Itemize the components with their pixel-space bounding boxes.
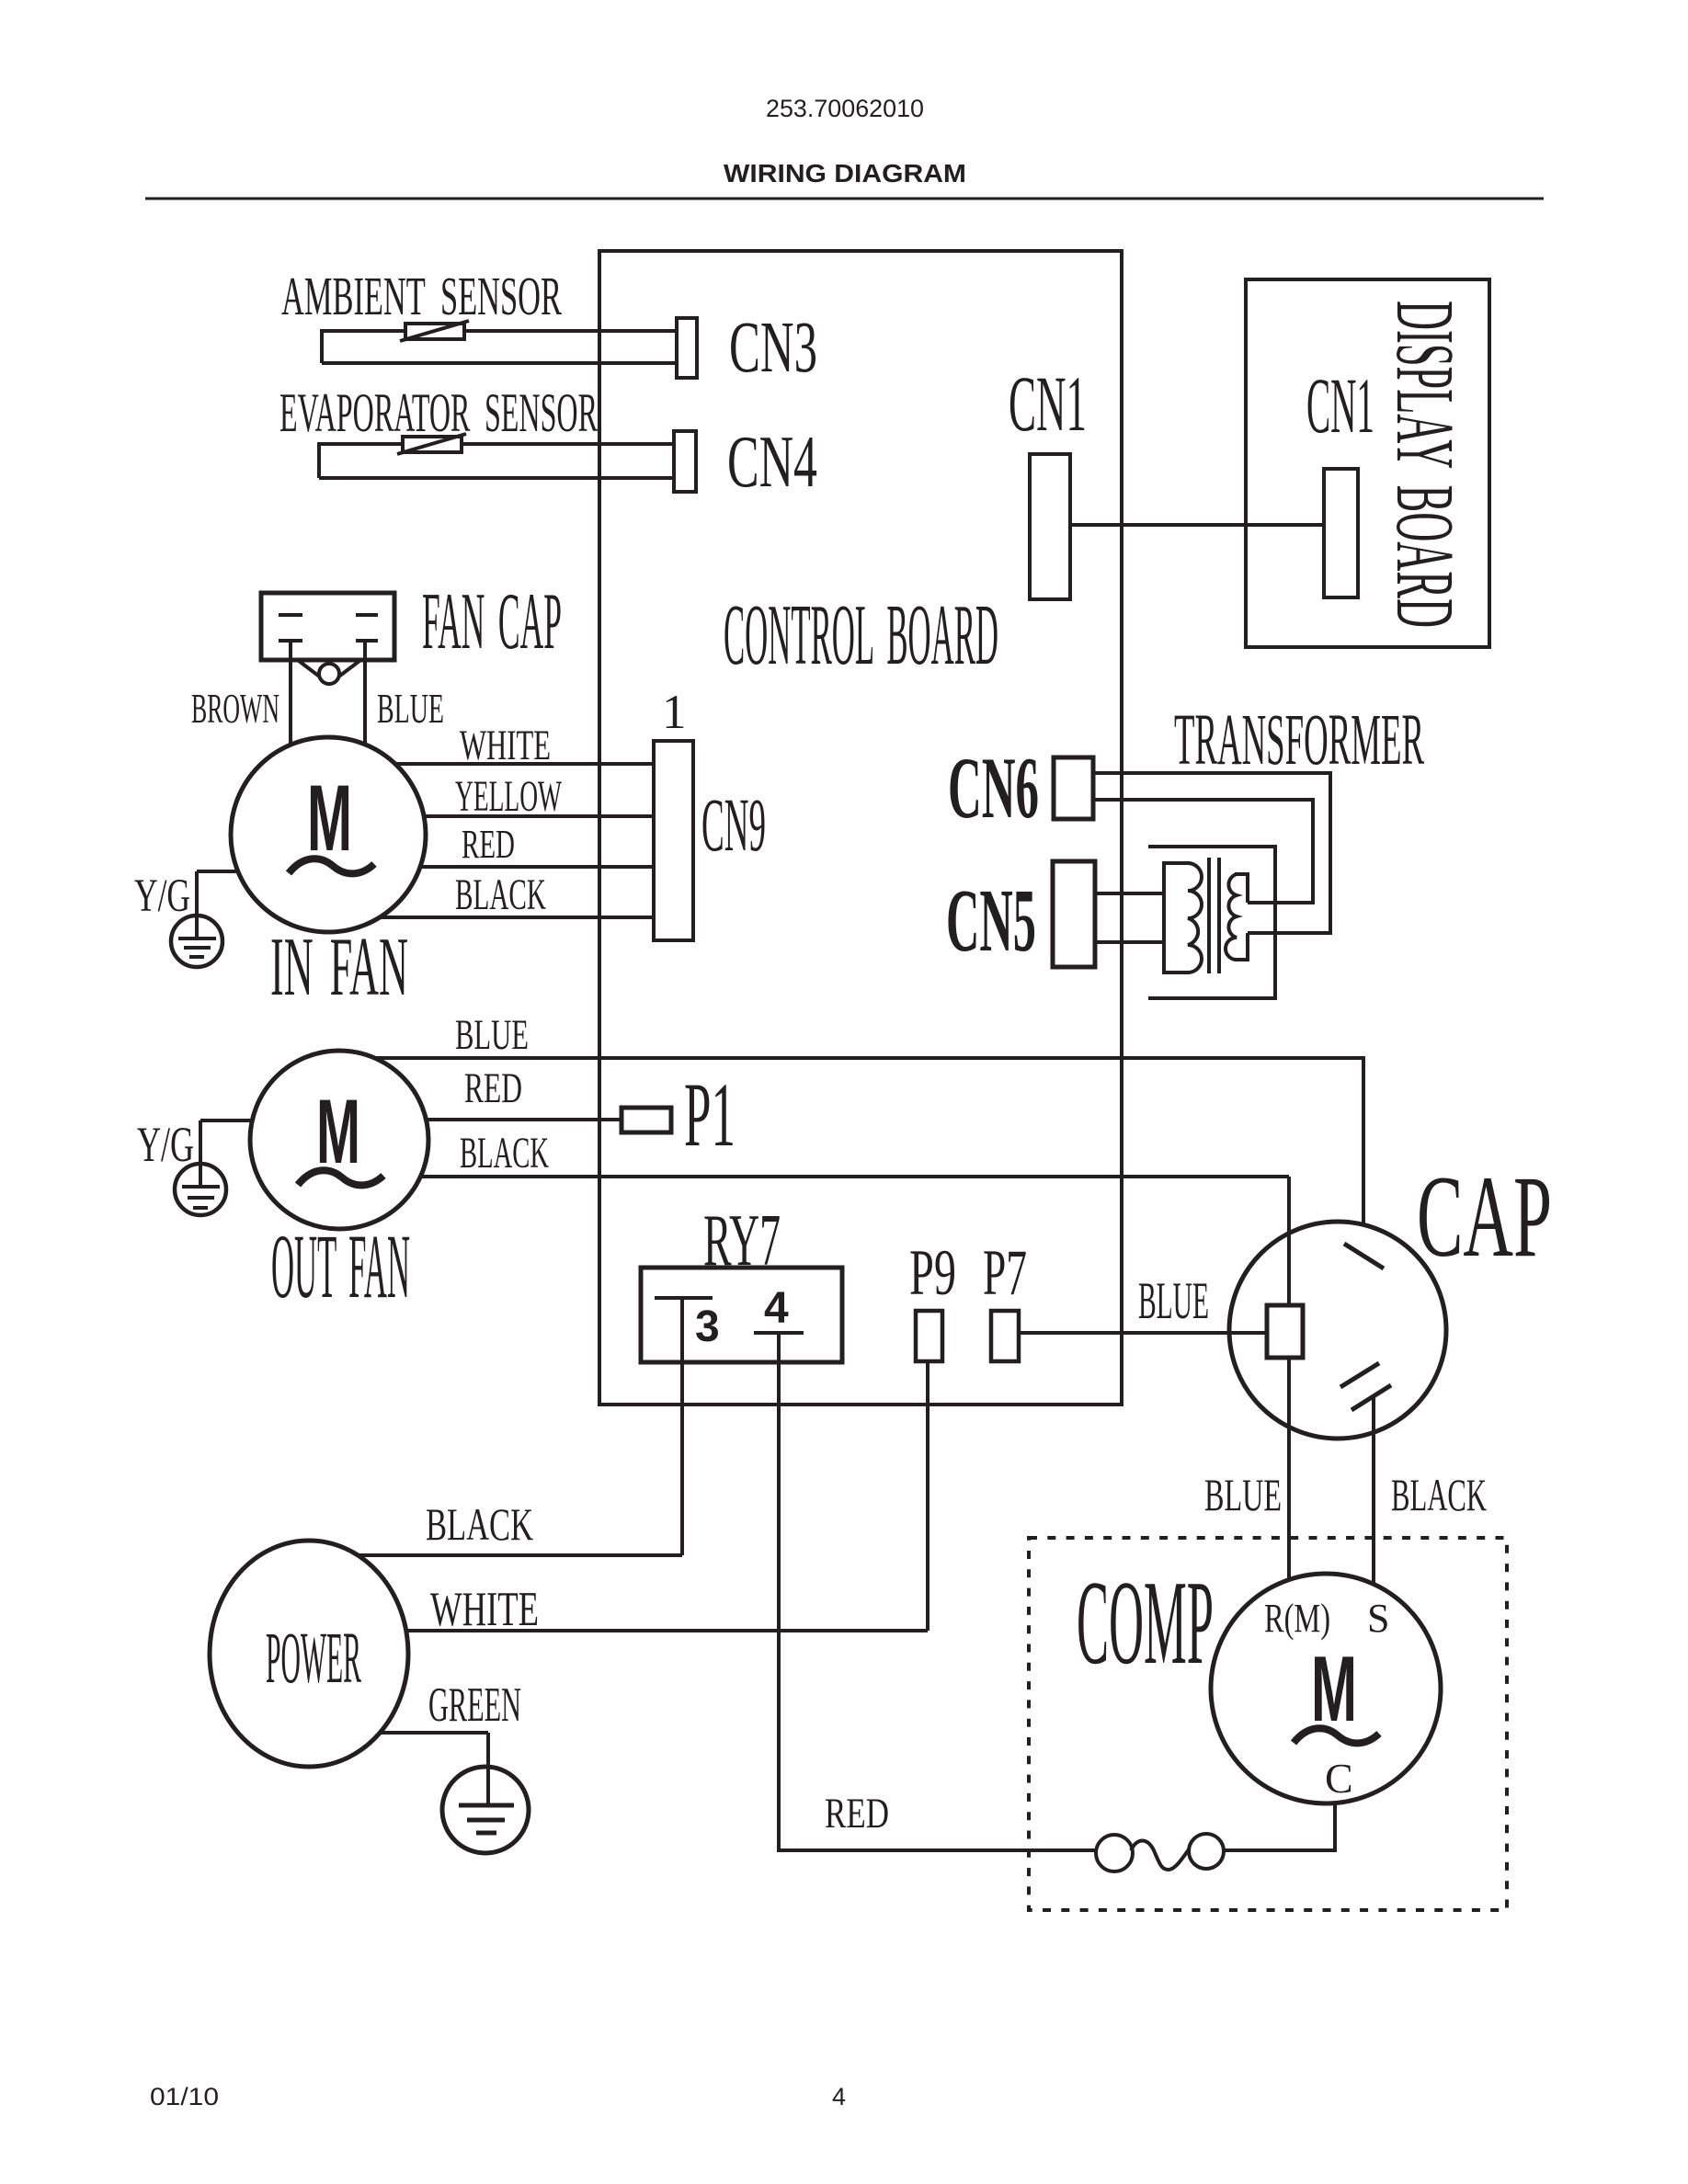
capacitor FAN CAP box [261, 593, 394, 660]
ground bars (in fan) [178, 937, 216, 940]
capacitor CAP body [1229, 1222, 1446, 1439]
wire evaporator sensor loop [319, 444, 674, 478]
svg-text:P1: P1 [684, 1064, 736, 1166]
motor OUT FAN tilde [298, 1170, 383, 1185]
svg-text:253.70062010: 253.70062010 [766, 95, 924, 122]
svg-text:1: 1 [662, 686, 687, 739]
wire CN6 pin1 to transformer [1093, 773, 1330, 933]
capacitor plates (fan cap) [279, 613, 302, 617]
wire P9 to white [926, 1361, 930, 1631]
junction bead [319, 664, 339, 684]
wire blue (fan cap to motor) [363, 642, 367, 745]
wire red (in fan to CN9) [420, 865, 654, 869]
transformer core [1207, 858, 1211, 973]
capacitor plate (top) [1344, 1244, 1384, 1268]
svg-text:IN FAN: IN FAN [270, 920, 408, 1013]
svg-text:CN9: CN9 [701, 782, 766, 867]
thermistor (ambient sensor) [405, 324, 464, 339]
capacitor plates (bottom) [1340, 1363, 1379, 1387]
svg-text:BLUE: BLUE [455, 1011, 529, 1059]
ground bars (power) [459, 1803, 514, 1808]
svg-text:3: 3 [695, 1302, 720, 1351]
svg-text:GREEN: GREEN [428, 1678, 521, 1732]
ground (power) [442, 1767, 529, 1853]
svg-text:DISPLAY BOARD: DISPLAY BOARD [1379, 301, 1470, 628]
svg-text:CN3: CN3 [729, 308, 817, 388]
svg-text:CN1: CN1 [1009, 359, 1087, 448]
power plug [210, 1541, 408, 1767]
svg-text:BLACK: BLACK [455, 870, 546, 919]
svg-text:WHITE: WHITE [430, 1583, 539, 1636]
wire pin 3 to power black [680, 1298, 684, 1555]
svg-text:BLUE: BLUE [1138, 1272, 1209, 1330]
wire white (power to P9) [406, 1629, 928, 1632]
motor OUT FAN [250, 1051, 428, 1229]
svg-text:CAP: CAP [1417, 1153, 1552, 1281]
capacitor CAP plug [1267, 1305, 1303, 1358]
svg-text:BLACK: BLACK [1391, 1469, 1487, 1520]
svg-text:Y/G: Y/G [134, 870, 190, 922]
svg-text:CN6: CN6 [948, 739, 1039, 836]
wire black (in fan to CN9) [380, 916, 654, 919]
svg-text:R(M): R(M) [1264, 1596, 1330, 1641]
transformer secondary winding [1226, 874, 1237, 960]
connector CN3 [677, 318, 697, 378]
connector CN4 [674, 431, 696, 492]
motor COMP [1211, 1574, 1441, 1803]
wire CN1 to display CN1 [1070, 523, 1324, 527]
motor IN FAN [231, 737, 426, 932]
transformer outer bracket [1148, 847, 1275, 998]
wire P7 to cap plug [1017, 1331, 1267, 1335]
ground wire (in fan) [195, 871, 199, 938]
ground (out fan) [175, 1164, 226, 1215]
svg-text:P9: P9 [909, 1237, 956, 1309]
wire green (power to ground) [380, 1731, 488, 1735]
fan cap vee link [299, 661, 359, 684]
connector P7 [991, 1311, 1019, 1361]
svg-text:4: 4 [832, 2083, 846, 2110]
ground (in fan) [171, 916, 222, 967]
pin 3 bar [655, 1296, 713, 1300]
svg-text:CONTROL BOARD: CONTROL BOARD [724, 587, 998, 683]
display board [1246, 279, 1489, 647]
svg-text:CN5: CN5 [946, 871, 1036, 971]
svg-text:CN1: CN1 [1306, 361, 1374, 449]
svg-text:WIRING DIAGRAM: WIRING DIAGRAM [724, 159, 966, 188]
svg-text:RED: RED [462, 822, 515, 867]
wire blue (out fan to cap) [370, 1058, 1363, 1257]
svg-text:BLUE: BLUE [1204, 1469, 1282, 1520]
wire white (in fan to CN9) [395, 762, 654, 766]
svg-text:BLUE: BLUE [377, 686, 444, 732]
ground wire (power) [486, 1733, 490, 1805]
ground wire (out fan) [199, 1120, 202, 1187]
wire CN5 pin2 to transformer [1095, 940, 1164, 944]
svg-text:COMP: COMP [1077, 1556, 1214, 1689]
wire black (cap to comp S) [1372, 1397, 1375, 1584]
connector CN1 (control board) [1030, 454, 1070, 599]
svg-text:P7: P7 [983, 1237, 1027, 1309]
title rule [145, 198, 1544, 200]
connector P9 [916, 1311, 942, 1361]
svg-text:M: M [307, 766, 352, 870]
svg-text:AMBIENT SENSOR: AMBIENT SENSOR [281, 266, 562, 326]
motor IN FAN tilde [289, 859, 374, 873]
svg-text:OUT FAN: OUT FAN [271, 1215, 410, 1317]
connector CN5 [1053, 861, 1095, 967]
svg-text:C: C [1325, 1755, 1353, 1802]
connector CN9 [654, 741, 693, 940]
connector CN1 (display board) [1324, 469, 1358, 597]
wire yellow (in fan to CN9) [424, 814, 654, 818]
wire CN6 pin2 to transformer [1093, 800, 1313, 903]
transformer primary winding [1188, 863, 1202, 973]
svg-text:POWER: POWER [266, 1619, 361, 1699]
compressor enclosure (dashed) [1029, 1538, 1507, 1910]
wire Y/G (out fan) [200, 1119, 252, 1122]
wire blue (cap plug to comp R) [1287, 1358, 1291, 1580]
svg-text:BLACK: BLACK [460, 1129, 549, 1177]
svg-text:EVAPORATOR SENSOR: EVAPORATOR SENSOR [279, 382, 598, 443]
pin 4 bar [754, 1331, 804, 1335]
wire Y/G (in fan) [197, 870, 238, 873]
svg-text:BROWN: BROWN [191, 686, 279, 732]
svg-text:RED: RED [825, 1790, 889, 1837]
svg-text:WHITE: WHITE [460, 722, 551, 769]
connector CN6 [1054, 757, 1093, 819]
svg-text:RED: RED [464, 1064, 522, 1112]
ground bars (out fan) [182, 1185, 220, 1189]
svg-text:01/10: 01/10 [150, 2083, 219, 2110]
wire black to cap plug [1287, 1177, 1291, 1305]
svg-text:S: S [1367, 1596, 1389, 1641]
connector P1 [622, 1108, 671, 1132]
transformer secondary arms [1235, 874, 1248, 960]
svg-text:FAN CAP: FAN CAP [422, 577, 562, 666]
wire pin 4 to red [779, 1333, 1098, 1850]
wire black (out fan to cap) [420, 1175, 1289, 1178]
svg-text:BLACK: BLACK [426, 1498, 533, 1550]
wire brown (fan cap to motor) [289, 642, 292, 745]
wire black (power to pin 3) [358, 1553, 682, 1557]
wire ambient sensor loop [322, 331, 677, 363]
overload protector [1096, 1835, 1133, 1871]
svg-text:TRANSFORMER: TRANSFORMER [1174, 700, 1424, 780]
svg-text:YELLOW: YELLOW [455, 772, 562, 821]
motor COMP tilde [1294, 1728, 1379, 1743]
wire CN5 pin1 to transformer [1095, 892, 1164, 895]
thermistor (evaporator sensor) [403, 437, 462, 452]
control board [599, 251, 1122, 1405]
relay RY7 box [641, 1268, 842, 1362]
wire C to overload [1225, 1803, 1335, 1850]
wire red (out fan to P1) [428, 1118, 622, 1121]
svg-text:4: 4 [764, 1284, 789, 1333]
svg-text:Y/G: Y/G [137, 1117, 194, 1172]
svg-text:CN4: CN4 [727, 422, 817, 503]
transformer primary bracket [1164, 863, 1190, 973]
